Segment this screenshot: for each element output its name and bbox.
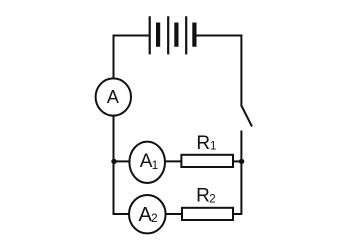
svg-text:A: A — [107, 87, 119, 107]
svg-text:1: 1 — [152, 160, 158, 172]
svg-text:A: A — [140, 151, 153, 172]
svg-text:R: R — [196, 186, 210, 207]
svg-text:2: 2 — [209, 194, 215, 206]
svg-text:2: 2 — [151, 211, 158, 225]
svg-text:R: R — [196, 133, 210, 154]
svg-text:1: 1 — [210, 141, 216, 153]
